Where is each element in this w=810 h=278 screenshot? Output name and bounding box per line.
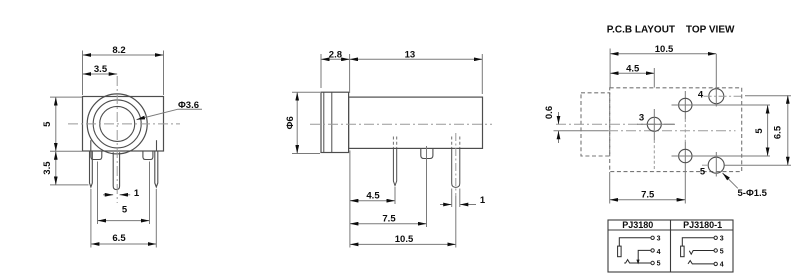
pcb body dashed rect (610, 88, 742, 172)
svg-text:5: 5 (700, 167, 706, 178)
svg-text:5: 5 (754, 128, 765, 134)
dimension 4.5 side line (350, 200, 395, 202)
hole bottom middle crosshair / 5-dim extension (672, 155, 771, 157)
dimension phi6 line (296, 92, 298, 153)
pcb barrel dashed rect (581, 93, 610, 156)
dimension 13 line (350, 58, 483, 60)
leader 5-phi1.5 (723, 173, 738, 188)
svg-text:5: 5 (657, 261, 661, 268)
table column divider (670, 220, 672, 272)
dimension 10.5 side line (350, 243, 456, 245)
svg-text:3: 3 (720, 236, 724, 243)
svg-text:P.C.B LAYOUT: P.C.B LAYOUT (607, 25, 675, 36)
hole bottom middle (679, 149, 692, 162)
side view pin 2 stub (421, 148, 433, 158)
side view barrel rim lines (323, 92, 325, 152)
svg-text:3.5: 3.5 (42, 161, 53, 175)
front view hole circle (100, 106, 135, 141)
svg-text:6.5: 6.5 (112, 233, 126, 244)
dimension 6.5 pcb line (787, 95, 789, 165)
extension lines pin3 width (451, 189, 453, 208)
middle holes vertical line bottom / 7.5 extension (684, 142, 686, 204)
pj3180 sleeve contact rect (618, 246, 622, 257)
side view pin 3 (452, 148, 460, 187)
svg-text:3: 3 (657, 236, 661, 243)
hole 4 vertical line (715, 54, 717, 107)
front view body (83, 97, 164, 152)
front view ring circle (93, 100, 141, 148)
hole top middle (679, 98, 692, 111)
dimension 6.5 line (91, 243, 156, 245)
svg-text:0.6: 0.6 (544, 106, 555, 119)
dimension 3.5 top line (83, 73, 118, 75)
side view centerline (310, 123, 492, 125)
front view left tab (91, 151, 102, 160)
pj3180 pin4 wire (638, 250, 651, 263)
front view center pin (113, 152, 119, 189)
middle holes vertical line top (684, 91, 686, 119)
front view right pin (155, 151, 158, 187)
extension line pin2 center (426, 146, 428, 227)
pj3180-1 pin3 contact circle (714, 236, 717, 239)
extension line body left bottom (349, 151, 351, 248)
dimension 2.8 line (321, 58, 350, 60)
table header divider (608, 229, 733, 231)
dimension 8.2 line (83, 54, 164, 56)
dimension 5 pcb line (767, 105, 769, 156)
hole 4 (709, 89, 724, 104)
dimension 5 left line (55, 97, 57, 151)
svg-text:3: 3 (639, 113, 644, 124)
svg-text:8.2: 8.2 (112, 45, 125, 56)
svg-text:PJ3180-1: PJ3180-1 (683, 220, 722, 230)
side view pin 3 hidden (451, 137, 453, 149)
extension lines 6.5 (90, 189, 92, 248)
svg-text:4.5: 4.5 (366, 191, 380, 202)
svg-text:13: 13 (405, 50, 416, 61)
hole 5 horizontal centermark / 6.5 extension (702, 164, 709, 166)
table outer border (608, 220, 733, 272)
side view barrel (321, 92, 349, 152)
extension line pin3 center (455, 196, 457, 248)
svg-text:7.5: 7.5 (382, 214, 396, 225)
hole 3 (647, 117, 661, 131)
pj3180-1 pin3 wire (682, 238, 714, 246)
hole 5 (708, 157, 724, 173)
svg-text:1: 1 (134, 188, 140, 199)
front view right tab (143, 151, 153, 160)
svg-text:2.8: 2.8 (329, 50, 342, 61)
extension lines phi6 (292, 91, 320, 93)
svg-text:4: 4 (698, 90, 704, 101)
pcb barrel axis centerline (556, 123, 677, 125)
leader phi3.6 (178, 108, 203, 110)
svg-text:TOP VIEW: TOP VIEW (686, 25, 735, 36)
svg-text:10.5: 10.5 (395, 234, 414, 245)
extension lines pcb top dims (609, 49, 611, 88)
extension lines bottom 5 (97, 162, 99, 225)
svg-text:PJ3180: PJ3180 (622, 220, 653, 230)
svg-text:5-Φ1.5: 5-Φ1.5 (738, 188, 768, 199)
side view pin 1 (393, 148, 396, 185)
pj3180 pin3 wire (619, 238, 651, 246)
pj3180 pin5 wire with spring (624, 260, 651, 263)
svg-text:3.5: 3.5 (94, 64, 108, 75)
svg-text:5: 5 (720, 249, 724, 256)
svg-text:4: 4 (720, 262, 724, 269)
side view main body (349, 97, 483, 148)
extension lines 2.8 and 13 (320, 54, 322, 88)
side view pin 1 hidden (392, 137, 394, 149)
dimension 7.5 side line (350, 223, 427, 225)
pj3180 pin3 contact circle (651, 236, 654, 239)
svg-text:6.5: 6.5 (773, 125, 784, 139)
svg-text:Φ6: Φ6 (285, 116, 296, 129)
extension line pin1 center (394, 187, 396, 204)
front view left pin root inside body (90, 140, 92, 151)
dimension 10.5 pcb line (610, 53, 716, 55)
hole 5 vertical line (715, 152, 717, 177)
svg-text:5: 5 (122, 205, 128, 216)
dimension 5 bottom line (98, 220, 150, 222)
svg-text:7.5: 7.5 (641, 190, 655, 201)
pj3180-1 pin5 wire with tick (689, 251, 714, 255)
pj3180-1 pin4 contact circle (714, 262, 717, 265)
pj3180 pin4 contact circle (651, 249, 654, 252)
extension lines 8.2 (82, 51, 84, 96)
hole 4 horizontal centermark / 6.5 extension (704, 95, 741, 97)
svg-text:5: 5 (42, 121, 53, 127)
svg-text:4.5: 4.5 (626, 64, 640, 75)
pj3180-1 sleeve contact rect (681, 246, 685, 257)
pj3180-1 pin5 contact circle (714, 249, 717, 252)
pcb body centerline lower (554, 130, 609, 132)
svg-text:1: 1 (480, 195, 486, 206)
pj3180-1 pin4 wire with spring (688, 261, 714, 264)
front view right pin root inside body (156, 140, 158, 151)
dimension 7.5 pcb line (610, 199, 685, 201)
front view outer circle (87, 94, 147, 154)
hole 3 vertical dashed below (653, 140, 655, 171)
hole top middle crosshair / 5-dim extension (672, 104, 771, 106)
dimension 1 front arrows (103, 194, 113, 196)
extension lines pcb bottom (609, 172, 611, 204)
hole 3 crosshair (637, 123, 675, 125)
svg-text:10.5: 10.5 (655, 44, 674, 55)
front view vertical centerline (116, 76, 118, 203)
dimension 1 side arrows (440, 204, 452, 206)
dimension 3.5 left line (55, 151, 57, 185)
extension lines left (50, 96, 82, 98)
pin3 dash-dot centerline (455, 133, 457, 196)
middle holes vertical dashed mid (684, 119, 686, 142)
front view horizontal centerline (68, 123, 180, 125)
pj3180 pin5 contact circle (651, 261, 654, 264)
dimension 0.6 arrows (558, 112, 560, 124)
svg-text:4: 4 (657, 249, 661, 256)
svg-text:Φ3.6: Φ3.6 (178, 100, 199, 111)
pj3180 junction dot (636, 260, 639, 265)
front view left pin (90, 151, 93, 187)
dimension 4.5 pcb line (610, 72, 654, 74)
